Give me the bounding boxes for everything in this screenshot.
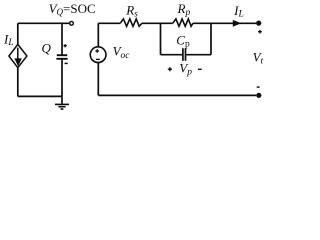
svg-text:Cp: Cp xyxy=(176,33,190,50)
svg-text:Vt: Vt xyxy=(253,49,264,66)
svg-text:Rs: Rs xyxy=(125,3,138,20)
svg-text:Q: Q xyxy=(42,40,52,55)
svg-text:VQ=SOC: VQ=SOC xyxy=(49,1,96,17)
svg-text:Voc: Voc xyxy=(113,43,131,61)
svg-text:Rp: Rp xyxy=(177,1,191,18)
svg-text:IL: IL xyxy=(3,31,14,48)
svg-text:Vp: Vp xyxy=(179,60,192,77)
svg-text:IL: IL xyxy=(233,3,244,20)
